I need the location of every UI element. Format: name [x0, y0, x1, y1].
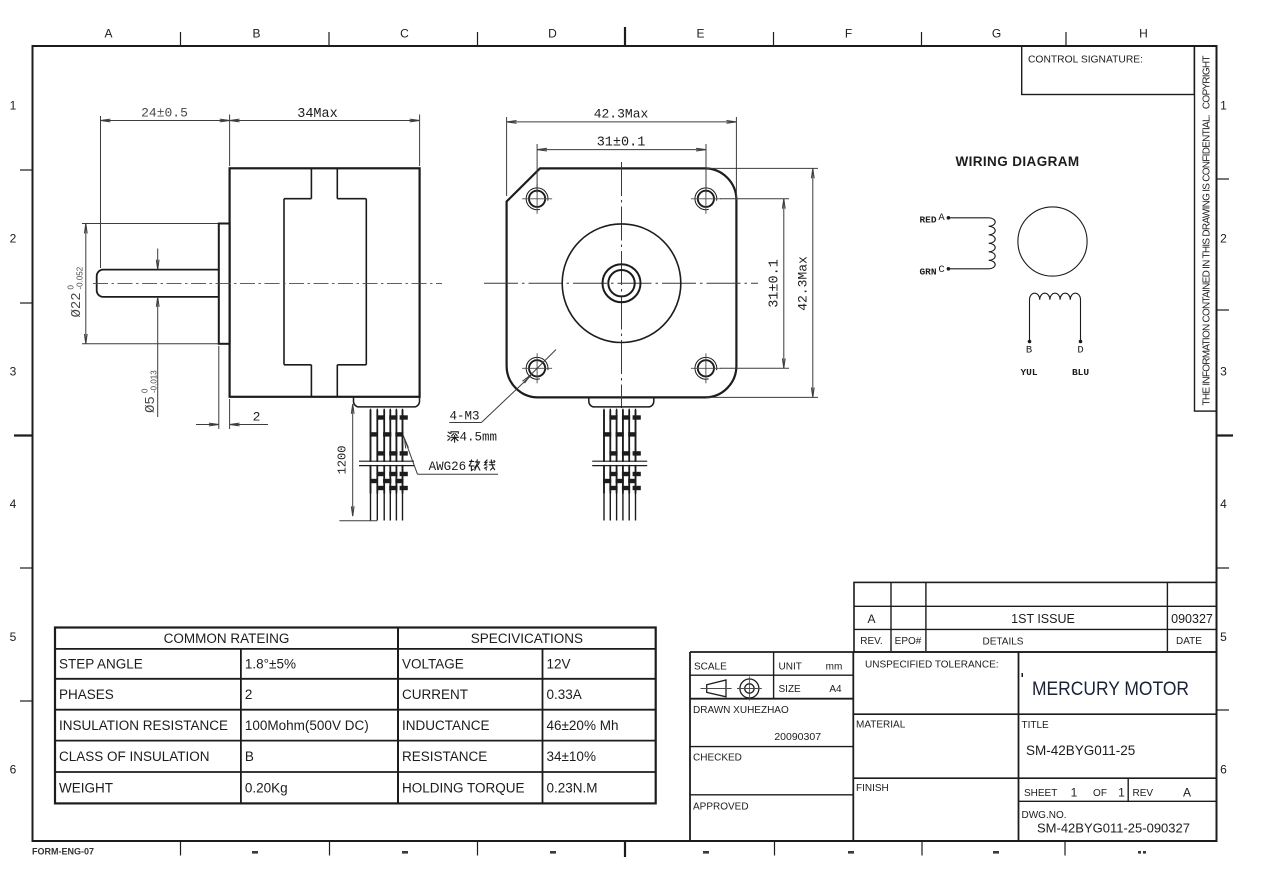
- svg-text:0: 0: [67, 285, 76, 290]
- svg-text:4: 4: [1220, 497, 1227, 511]
- svg-text:090327: 090327: [1171, 612, 1213, 626]
- side view lead bundle tie bands: [370, 410, 408, 494]
- svg-text:YUL: YUL: [1020, 367, 1037, 378]
- svg-text:0.23N.M: 0.23N.M: [547, 781, 598, 796]
- svg-text:1: 1: [10, 99, 17, 113]
- confidential strip: [1195, 46, 1217, 411]
- svg-text:B: B: [245, 749, 254, 764]
- svg-text:mm: mm: [826, 662, 843, 673]
- svg-text:HOLDING TORQUE: HOLDING TORQUE: [402, 781, 525, 796]
- svg-text:TITLE: TITLE: [1022, 720, 1050, 731]
- svg-text:B: B: [1026, 345, 1032, 357]
- side view centerline: [93, 282, 442, 284]
- dimension Ø5: [156, 249, 159, 418]
- label depth 4.5mm: [448, 431, 497, 445]
- svg-text:INDUCTANCE: INDUCTANCE: [402, 718, 490, 733]
- front view motor face outline: [507, 168, 737, 397]
- svg-text:D: D: [548, 27, 557, 41]
- side view lead bundle break line: [359, 462, 414, 465]
- svg-text:FINISH: FINISH: [856, 783, 889, 794]
- front view mounting hole 1: [522, 184, 552, 214]
- svg-text:0.20Kg: 0.20Kg: [245, 781, 288, 796]
- svg-text:0.33A: 0.33A: [547, 687, 582, 702]
- svg-text:CONTROL SIGNATURE:: CONTROL SIGNATURE:: [1028, 55, 1143, 66]
- svg-text:APPROVED: APPROVED: [693, 802, 749, 813]
- svg-text:G: G: [992, 27, 1001, 41]
- sheet cell: [1024, 786, 1191, 800]
- svg-text:D: D: [1077, 345, 1083, 357]
- svg-text:A4: A4: [829, 684, 842, 695]
- svg-text:-0.013: -0.013: [150, 370, 159, 393]
- svg-text:A: A: [867, 612, 875, 626]
- svg-text:REV.: REV.: [860, 636, 882, 647]
- phase A-C coil: [947, 216, 996, 271]
- svg-text:EPO#: EPO#: [895, 636, 922, 647]
- svg-text:3: 3: [10, 365, 17, 379]
- front view shaft circle: [608, 270, 634, 296]
- side view stator lamination profile: [284, 168, 366, 396]
- side view shaft: [97, 270, 219, 297]
- right ruler numbers: [1220, 99, 1227, 777]
- control signature box: [1022, 46, 1195, 95]
- svg-text:4.5mm: 4.5mm: [460, 431, 498, 445]
- svg-text:CLASS OF INSULATION: CLASS OF INSULATION: [59, 749, 210, 764]
- svg-text:4: 4: [10, 497, 17, 511]
- svg-text:BLU: BLU: [1072, 367, 1089, 378]
- dimension 42.3Max (right): [706, 168, 818, 397]
- label AWG26 lead wire: [429, 460, 495, 474]
- svg-text:DWG.NO.: DWG.NO.: [1022, 810, 1067, 821]
- left ruler numbers: [10, 99, 17, 777]
- svg-text:CURRENT: CURRENT: [402, 687, 468, 702]
- svg-text:B: B: [252, 27, 260, 41]
- svg-text:A: A: [1183, 786, 1191, 800]
- svg-text:UNIT: UNIT: [779, 662, 802, 673]
- svg-text:MATERIAL: MATERIAL: [856, 720, 906, 731]
- svg-text:2: 2: [1220, 232, 1227, 246]
- front view pilot circle: [562, 224, 681, 343]
- svg-text:C: C: [400, 27, 409, 41]
- svg-text:DATE: DATE: [1176, 636, 1202, 647]
- svg-text:C: C: [938, 264, 944, 276]
- dimension 31±0.1 (top): [537, 144, 706, 193]
- svg-text:1: 1: [1118, 786, 1125, 800]
- svg-text:UNSPECIFIED TOLERANCE:: UNSPECIFIED TOLERANCE:: [865, 660, 999, 671]
- right ruler ticks: [1217, 179, 1234, 710]
- svg-text:34Max: 34Max: [297, 107, 338, 122]
- svg-text:20090307: 20090307: [774, 731, 821, 743]
- svg-text:REV: REV: [1133, 788, 1154, 799]
- svg-text:H: H: [1139, 27, 1148, 41]
- svg-text:24±0.5: 24±0.5: [141, 106, 188, 121]
- table row 5: [59, 781, 598, 796]
- svg-text:46±20% Mh: 46±20% Mh: [547, 718, 619, 733]
- svg-text:WEIGHT: WEIGHT: [59, 781, 113, 796]
- dimension 42.3Max (top): [507, 117, 737, 200]
- top ruler letters: [104, 27, 1147, 41]
- svg-text:-0.052: -0.052: [76, 266, 85, 289]
- svg-text:DRAWN XUHEZHAO: DRAWN XUHEZHAO: [693, 705, 789, 716]
- svg-text:CHECKED: CHECKED: [693, 753, 742, 764]
- svg-text:2: 2: [253, 410, 261, 425]
- front view lead bundle break line: [592, 462, 647, 465]
- svg-text:A: A: [938, 212, 945, 224]
- svg-text:STEP ANGLE: STEP ANGLE: [59, 657, 143, 672]
- front view mounting hole 3: [522, 353, 552, 383]
- dimension 24±0.5: [101, 115, 230, 269]
- svg-text:COMMON RATEING: COMMON RATEING: [164, 631, 290, 646]
- first angle projection symbol: [701, 677, 762, 701]
- svg-text:VOLTAGE: VOLTAGE: [402, 657, 464, 672]
- front view lead bundle tie bands: [603, 410, 641, 494]
- svg-text:100Mohm(500V DC): 100Mohm(500V DC): [245, 718, 369, 733]
- table row 1: [59, 657, 571, 672]
- svg-text:6: 6: [1220, 763, 1227, 777]
- svg-text:PHASES: PHASES: [59, 687, 114, 702]
- svg-text:3: 3: [1220, 365, 1227, 379]
- bottom ruler letter fragments: [252, 851, 1146, 854]
- table row 4: [59, 749, 596, 764]
- svg-text:6: 6: [10, 763, 17, 777]
- svg-text:34±10%: 34±10%: [547, 749, 596, 764]
- dimension Ø22: [82, 224, 218, 344]
- svg-text:SCALE: SCALE: [694, 662, 727, 673]
- svg-text:DETAILS: DETAILS: [983, 637, 1024, 648]
- svg-text:1200: 1200: [336, 446, 350, 475]
- svg-text:WIRING DIAGRAM: WIRING DIAGRAM: [955, 154, 1079, 169]
- svg-text:A: A: [104, 27, 112, 41]
- svg-text:GRN: GRN: [919, 267, 936, 278]
- front view mounting hole 4: [691, 353, 721, 383]
- phase B-D coil: [1028, 293, 1083, 343]
- left ruler ticks: [14, 170, 33, 701]
- svg-text:Ø5: Ø5: [143, 396, 159, 413]
- svg-text:2: 2: [245, 687, 253, 702]
- front view lead bundle wires: [604, 409, 636, 521]
- svg-text:42.3Max: 42.3Max: [594, 107, 649, 122]
- dimension 34Max: [230, 115, 420, 167]
- revision header row: [860, 636, 1202, 648]
- table row 3: [59, 718, 618, 733]
- svg-text:SM-42BYG011-25-090327: SM-42BYG011-25-090327: [1037, 821, 1190, 836]
- svg-text:INSULATION RESISTANCE: INSULATION RESISTANCE: [59, 718, 228, 733]
- svg-text:1: 1: [1220, 99, 1227, 113]
- svg-text:SPECIVICATIONS: SPECIVICATIONS: [471, 631, 583, 646]
- revision table: [854, 582, 1217, 652]
- svg-text:SIZE: SIZE: [779, 684, 802, 695]
- svg-text:12V: 12V: [547, 657, 571, 672]
- dimension 2 (flange thickness): [196, 346, 268, 429]
- svg-text:E: E: [696, 27, 704, 41]
- top ruler ticks: [181, 27, 1067, 46]
- svg-text:AWG26: AWG26: [429, 460, 467, 474]
- front view mounting hole 2: [691, 184, 721, 214]
- svg-text:OF: OF: [1093, 788, 1107, 799]
- svg-text:2: 2: [10, 232, 17, 246]
- side view motor body outline: [230, 168, 420, 396]
- svg-text:1ST ISSUE: 1ST ISSUE: [1011, 612, 1075, 626]
- bottom ruler ticks: [181, 841, 1066, 857]
- front view wire connector: [589, 398, 654, 407]
- svg-text:4-M3: 4-M3: [450, 410, 480, 424]
- svg-text:31±0.1: 31±0.1: [768, 259, 783, 308]
- svg-text:SHEET: SHEET: [1024, 788, 1057, 799]
- specification table: [55, 628, 656, 804]
- front view shaft boss circle: [603, 264, 641, 302]
- svg-text:SM-42BYG011-25: SM-42BYG011-25: [1026, 743, 1135, 758]
- revision row A 1ST ISSUE: [867, 612, 1212, 626]
- side view wire connector: [354, 397, 420, 407]
- svg-text:RED: RED: [919, 215, 936, 226]
- svg-text:5: 5: [10, 630, 17, 644]
- leader 4-M3 tapped holes: [449, 350, 556, 423]
- table row 2: [59, 687, 582, 702]
- side view mounting flange: [219, 224, 230, 344]
- svg-text:1.8°±5%: 1.8°±5%: [245, 657, 296, 672]
- svg-text:FORM-ENG-07: FORM-ENG-07: [32, 847, 94, 857]
- front view vertical centerline: [621, 162, 623, 408]
- svg-text:1: 1: [1071, 786, 1078, 800]
- dimension 1200: [339, 404, 377, 521]
- rotor circle: [1018, 207, 1087, 276]
- svg-text:Ø22: Ø22: [69, 292, 85, 317]
- svg-text:F: F: [845, 27, 852, 41]
- svg-text:THE INFORMATION CONTAINED IN T: THE INFORMATION CONTAINED IN THIS DRAWIN…: [1202, 56, 1213, 406]
- svg-text:MERCURY MOTOR: MERCURY MOTOR: [1032, 679, 1189, 700]
- svg-text:RESISTANCE: RESISTANCE: [402, 749, 487, 764]
- side view lead bundle wires: [371, 409, 403, 521]
- svg-text:0: 0: [141, 388, 150, 393]
- leader AWG26 lead wire: [403, 435, 498, 474]
- dimension 31±0.1 (right): [720, 199, 789, 368]
- svg-text:31±0.1: 31±0.1: [597, 136, 646, 151]
- svg-text:42.3Max: 42.3Max: [796, 256, 811, 311]
- svg-text:5: 5: [1220, 630, 1227, 644]
- title block grid: [690, 652, 1217, 841]
- front view horizontal centerline: [484, 282, 758, 284]
